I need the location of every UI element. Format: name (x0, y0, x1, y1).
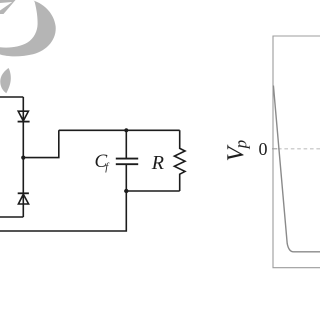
waveform Vp (273, 86, 320, 252)
svg-text:Vp: Vp (223, 140, 250, 162)
wire node A step up (23, 130, 59, 157)
node C (124, 189, 128, 193)
wire R bottom to node C (126, 190, 179, 192)
svg-text:R: R (151, 152, 164, 174)
zero dashed line (278, 148, 320, 150)
capacitor Cf (116, 130, 138, 191)
resistor R (174, 130, 185, 191)
svg-text:0: 0 (259, 139, 268, 159)
plot axes frame (273, 36, 320, 268)
wire left vertical (22, 97, 24, 217)
tick zero (272, 148, 277, 150)
node A (21, 156, 25, 160)
svg-text:Cf: Cf (95, 151, 111, 173)
node B (124, 128, 128, 132)
diode D2 (18, 193, 29, 204)
wire top rail (59, 129, 180, 131)
wire node C to bottom left (0, 191, 126, 231)
wire D2 to output (0, 216, 23, 218)
wire input top (0, 96, 23, 98)
diode D1 (18, 111, 30, 121)
